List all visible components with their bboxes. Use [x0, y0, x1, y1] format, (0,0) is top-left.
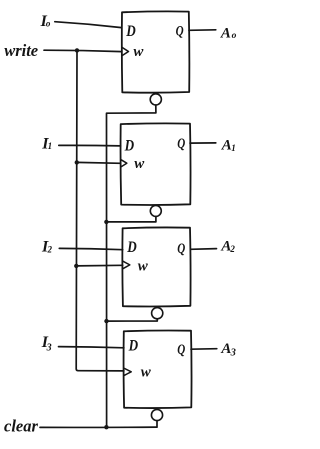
U3 clear bubble — [152, 308, 163, 319]
U3 clock triangle — [123, 261, 130, 269]
label I0 — [40, 13, 51, 30]
wire write branch to U2 W — [77, 161, 121, 164]
wire write bus vertical — [76, 50, 124, 371]
wire write branch to U3 W — [76, 264, 122, 267]
svg-text:Q: Q — [176, 23, 184, 39]
junction write node — [75, 48, 79, 52]
flip-flop U1 box — [122, 11, 190, 92]
label A0 — [220, 25, 237, 41]
wire U3 Q to A2 — [190, 248, 216, 251]
svg-text:o: o — [46, 19, 51, 29]
junction U4 clear — [104, 425, 108, 429]
svg-text:D: D — [126, 239, 137, 256]
svg-text:w: w — [133, 44, 144, 60]
svg-text:D: D — [124, 138, 135, 155]
U4 clock triangle — [124, 368, 131, 375]
wire U2 bubble to clear bus — [106, 217, 155, 222]
label A2 — [220, 239, 235, 255]
svg-text:D: D — [125, 23, 136, 40]
junction U3 clear — [104, 319, 108, 323]
label I3 — [41, 334, 52, 353]
svg-text:w: w — [138, 258, 149, 274]
svg-text:clear: clear — [4, 417, 38, 436]
junction U2 clear — [104, 220, 108, 224]
wire U1 bubble to clear bus — [106, 105, 156, 427]
svg-text:1: 1 — [48, 141, 53, 151]
wire U4 Q to A3 — [191, 348, 217, 351]
svg-text:write: write — [4, 41, 38, 60]
label I1 — [41, 135, 52, 152]
label A1 — [221, 138, 236, 154]
flip-flop U2 box — [121, 123, 191, 205]
wire U1 Q to A0 — [189, 29, 216, 32]
svg-text:1: 1 — [231, 143, 236, 153]
wire I3 to U4 D — [59, 347, 124, 348]
wire U3 bubble to clear bus — [107, 319, 158, 321]
flip-flop U3 box — [122, 227, 190, 306]
wire I1 to U2 D — [59, 144, 121, 147]
svg-text:Q: Q — [177, 342, 185, 358]
flip-flop U4 box — [124, 331, 192, 409]
junction write to U2 — [75, 160, 79, 164]
svg-text:D: D — [128, 338, 139, 355]
svg-text:2: 2 — [47, 245, 53, 255]
junction write to U3 — [74, 264, 78, 268]
U2 clock triangle — [121, 160, 127, 167]
label A3 — [220, 341, 235, 359]
svg-text:Q: Q — [177, 241, 185, 257]
svg-text:3: 3 — [230, 347, 236, 358]
wire I0 to U1 D — [55, 22, 122, 28]
svg-text:3: 3 — [46, 342, 52, 353]
wire clear — [40, 426, 157, 428]
U4 clear bubble — [151, 409, 162, 420]
U1 clock triangle — [122, 48, 128, 56]
U1 clear bubble — [150, 94, 161, 105]
svg-text:Q: Q — [177, 136, 185, 152]
wire U2 Q to A1 — [190, 142, 216, 144]
label I2 — [41, 238, 53, 255]
wire I2 to U3 D — [59, 248, 122, 249]
svg-text:A: A — [220, 25, 231, 41]
svg-text:w: w — [134, 156, 145, 172]
svg-text:w: w — [141, 365, 152, 381]
svg-text:A: A — [221, 138, 232, 154]
wire write to U1 W — [44, 50, 122, 51]
wire U4 bubble to clear bus — [156, 421, 158, 427]
U2 clear bubble — [150, 205, 161, 216]
svg-text:2: 2 — [229, 244, 235, 254]
svg-text:o: o — [232, 31, 237, 41]
